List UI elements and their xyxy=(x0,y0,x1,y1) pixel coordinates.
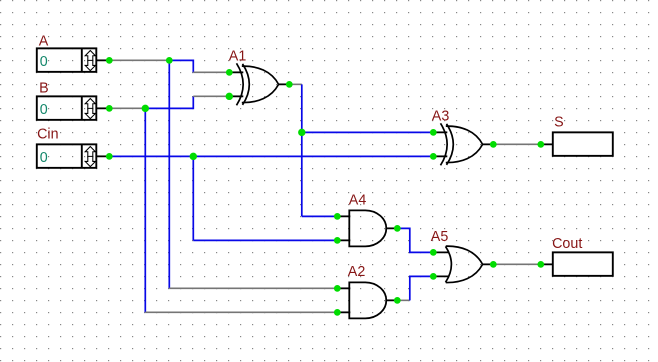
wire A vertical down xyxy=(168,60,170,288)
svg-text:A5: A5 xyxy=(431,229,449,245)
node A1out junction xyxy=(298,129,305,136)
node A1 in1 xyxy=(226,69,233,76)
wire B to A1 input2 xyxy=(145,96,193,108)
node A3 in1 xyxy=(430,129,437,136)
node A1 in2 xyxy=(226,93,233,100)
wire Cin output stub xyxy=(96,155,109,157)
wire A4 output to A5 input1 xyxy=(397,228,433,252)
node Cin out xyxy=(106,153,113,160)
wire A3 output gray xyxy=(493,143,541,145)
xor gate A3 xyxy=(433,123,493,165)
node A4 in2 xyxy=(334,237,341,244)
wire A5 output gray xyxy=(493,263,541,265)
wire Cin to A4 input2 xyxy=(193,239,337,241)
svg-text:Cin: Cin xyxy=(37,126,59,142)
wire A to A1 input1 xyxy=(169,60,193,72)
and gate A2 xyxy=(337,282,397,318)
wire A1 output gray xyxy=(289,83,302,85)
wire into A1 input1 xyxy=(193,71,229,73)
wire Cin vertical down xyxy=(192,156,194,240)
svg-text:A3: A3 xyxy=(432,108,450,124)
wire Cin horizontal to A3 input2 xyxy=(109,155,433,157)
node A4 in1 xyxy=(334,213,341,220)
input switch A xyxy=(37,48,97,72)
output box S xyxy=(553,132,613,156)
node A5 in1 xyxy=(430,249,437,256)
wire into Cout box xyxy=(541,263,553,265)
wire A2 output gray xyxy=(397,299,410,301)
input switch B xyxy=(37,96,97,120)
node A3 in2 xyxy=(430,153,437,160)
node A4 out xyxy=(394,225,401,232)
svg-text:0: 0 xyxy=(40,150,48,166)
output box Cout xyxy=(553,252,613,276)
xor gate A1 xyxy=(229,63,289,105)
node B junction xyxy=(142,105,149,112)
node A5 in2 xyxy=(430,273,437,280)
wire A output stub xyxy=(96,59,109,61)
svg-text:Cout: Cout xyxy=(552,236,582,252)
svg-text:B: B xyxy=(39,81,49,97)
node S in xyxy=(537,141,544,148)
node B out xyxy=(106,105,113,112)
input switch Cin xyxy=(37,144,97,168)
or gate A5 xyxy=(433,246,493,282)
node A5 out xyxy=(490,261,497,268)
node Cout in xyxy=(537,261,544,268)
wire A to A2 input1 xyxy=(169,287,337,289)
and gate A4 xyxy=(337,210,397,246)
wire to A4 input1 xyxy=(302,215,338,217)
node A3 out xyxy=(490,141,497,148)
node A2 out xyxy=(394,297,401,304)
wire A2 output to A5 input2 xyxy=(410,276,434,300)
wire A1 output vertical xyxy=(301,84,303,216)
wire B to A2 input2 xyxy=(145,311,337,313)
svg-text:0: 0 xyxy=(40,102,48,118)
node A2 in2 xyxy=(334,309,341,316)
wire B output stub xyxy=(96,107,109,109)
node A out xyxy=(106,57,113,64)
node A2 in1 xyxy=(334,285,341,292)
svg-text:A4: A4 xyxy=(349,192,367,208)
wire into A1 input2 xyxy=(193,95,229,97)
node Cin junction xyxy=(190,153,197,160)
wire B horizontal xyxy=(109,107,145,109)
wire B vertical down xyxy=(144,108,146,312)
svg-text:S: S xyxy=(554,114,564,130)
wire A horizontal xyxy=(109,59,169,61)
svg-text:A2: A2 xyxy=(348,264,366,280)
svg-text:A: A xyxy=(39,34,49,50)
wire into S box xyxy=(541,143,553,145)
svg-text:0: 0 xyxy=(40,54,48,70)
node A junction xyxy=(166,57,173,64)
wire to A3 input1 xyxy=(302,131,434,133)
node A1 out xyxy=(286,81,293,88)
svg-text:A1: A1 xyxy=(229,48,247,64)
